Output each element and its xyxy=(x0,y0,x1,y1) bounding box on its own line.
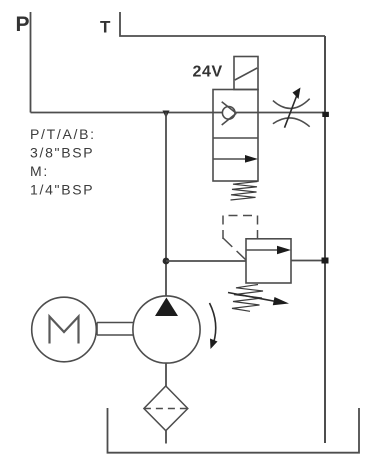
svg-text:T: T xyxy=(100,18,111,37)
solenoid coil of valve xyxy=(234,57,258,90)
check valve (top position of valve) xyxy=(222,102,237,125)
svg-text:P: P xyxy=(16,13,30,36)
wire: T return line top xyxy=(120,12,325,36)
node: junction pump line / relief branch xyxy=(163,258,170,265)
svg-text:P/T/A/B:: P/T/A/B: xyxy=(30,126,96,142)
tank xyxy=(108,408,360,453)
relief valve flow arrow xyxy=(246,246,291,255)
wire: filter to tank xyxy=(165,431,167,444)
electric motor M1 xyxy=(32,297,97,362)
wire: relief valve branch line xyxy=(166,260,325,263)
spring return of valve xyxy=(231,182,258,201)
wire: pump pressure line (vertical to pump) xyxy=(165,113,167,297)
pilot line (dashed): diagonal to relief valve xyxy=(223,238,246,260)
wire: return line right vertical xyxy=(324,36,326,443)
wire: P supply horizontal to valve xyxy=(31,112,214,114)
relief valve spring (adjustable) xyxy=(228,285,289,312)
flow arrow (bottom position of valve) xyxy=(213,155,258,163)
rotation direction arrow xyxy=(210,303,218,349)
pilot line (dashed): loop over relief valve xyxy=(223,216,258,240)
relief valve body xyxy=(246,239,291,283)
valve V1 body (2/2 directional valve) xyxy=(213,90,258,182)
wire: P supply vertical xyxy=(30,12,32,113)
suction filter xyxy=(144,386,188,431)
node: junction on return line (middle) xyxy=(322,258,329,264)
shaft coupling xyxy=(97,323,134,336)
wire: pump suction line xyxy=(165,363,167,386)
throttle (variable flow restrictor) xyxy=(273,88,310,128)
svg-text:1/4"BSP: 1/4"BSP xyxy=(30,182,94,198)
node: junction on return line (top) xyxy=(322,112,329,117)
svg-text:M:: M: xyxy=(30,163,49,179)
svg-text:3/8"BSP: 3/8"BSP xyxy=(30,145,94,161)
node: junction of supply line and pump line xyxy=(163,111,170,119)
pump P1 xyxy=(133,296,200,363)
svg-text:24V: 24V xyxy=(193,64,223,81)
wire: valve outlet to throttle / return line xyxy=(213,112,325,114)
